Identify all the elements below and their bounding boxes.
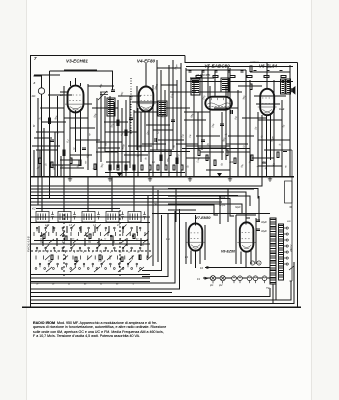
- wire: [152, 213, 270, 215]
- resistor R60: [250, 66, 252, 72]
- pilot lamp socket / antenna coupling: [38, 88, 44, 94]
- switch contact stub: [123, 232, 125, 260]
- wire: [256, 103, 280, 105]
- wire: [87, 177, 89, 212]
- resistor R9: [176, 158, 178, 164]
- resistor R: [111, 236, 113, 241]
- svg-text:16: 16: [258, 263, 260, 265]
- ground: [68, 177, 72, 182]
- switch arm: [104, 232, 112, 261]
- resistor R10: [198, 150, 200, 156]
- wire: [142, 143, 166, 145]
- resistor R: [121, 257, 123, 262]
- resistor R6: [125, 130, 127, 136]
- wire: [275, 284, 277, 299]
- capacitor C3: [129, 118, 133, 119]
- capacitor C9: [231, 110, 232, 114]
- resistor R25: [251, 155, 253, 161]
- wire: [64, 117, 88, 119]
- wire: [126, 238, 128, 246]
- svg-text:4,2: 4,2: [32, 207, 36, 211]
- wire: [148, 110, 150, 176]
- wire: [289, 65, 291, 176]
- wire: [206, 169, 230, 171]
- resistor R41: [213, 75, 218, 77]
- resistor R45: [281, 75, 286, 77]
- wire: [30, 201, 222, 203]
- svg-text:32μF: 32μF: [261, 220, 267, 224]
- resistor R5: [117, 120, 119, 126]
- wire: [164, 90, 166, 165]
- wire: [136, 226, 138, 233]
- wire: [42, 121, 66, 123]
- wire: [170, 91, 196, 93]
- switch contact stub: [78, 232, 80, 260]
- wire: [37, 98, 39, 205]
- resistor R42: [230, 75, 235, 77]
- capacitor C11: [256, 220, 260, 221]
- wire: [214, 107, 238, 109]
- wire: [69, 111, 71, 177]
- wire: [118, 95, 141, 97]
- wire: [63, 210, 65, 278]
- wire: [40, 107, 64, 109]
- wire: [258, 165, 282, 167]
- switch contact stub: [145, 232, 147, 260]
- switch contact stub: [49, 232, 51, 260]
- switch contact stub: [93, 232, 95, 260]
- trimmer capacitor: [97, 212, 100, 220]
- resistor R: [99, 255, 101, 260]
- wire: [104, 121, 128, 123]
- wire: [48, 94, 72, 96]
- resistor R16: [117, 165, 119, 170]
- switch contact stub: [108, 232, 110, 260]
- wire: [186, 66, 293, 68]
- tuning capacitor CV1: [98, 91, 108, 100]
- wire: [96, 141, 122, 143]
- wire: [273, 80, 275, 176]
- tube V7 EM80 internal electrodes: [186, 233, 205, 248]
- wire: [84, 238, 86, 246]
- wire: [157, 67, 181, 69]
- switch arm: [94, 267, 100, 272]
- tube V4 EF80 envelope: [139, 87, 154, 112]
- wire: [134, 111, 157, 113]
- coil L3: [82, 212, 95, 223]
- wire: [221, 112, 223, 160]
- switch contact stub: [34, 232, 36, 260]
- svg-text:32μF: 32μF: [261, 229, 267, 233]
- switch arm: [144, 232, 152, 261]
- loudspeaker LS1: [291, 88, 293, 92]
- wire: [266, 63, 268, 89]
- wire: [133, 110, 135, 176]
- tube V6 EL84 envelope: [260, 89, 274, 115]
- wire: [132, 101, 158, 103]
- switch contact stub: [56, 232, 58, 260]
- switch arm: [49, 239, 54, 243]
- wire: [34, 240, 148, 242]
- wire: [226, 143, 248, 145]
- resistor R20: [149, 165, 151, 170]
- wire: [31, 222, 150, 224]
- wire: [30, 209, 179, 289]
- heater of V5: [247, 276, 252, 281]
- capacitor C10: [283, 150, 287, 151]
- switch arm: [70, 267, 76, 272]
- wire: [63, 86, 65, 176]
- wire: [36, 149, 58, 151]
- svg-text:V7-EM80: V7-EM80: [196, 216, 211, 220]
- resistor R7: [160, 155, 162, 161]
- wire: [94, 226, 96, 233]
- switch contact stub: [130, 232, 132, 260]
- wire: [180, 63, 182, 176]
- wire: [219, 196, 221, 224]
- switch contact: [87, 268, 89, 270]
- wire: [121, 108, 123, 176]
- wire: [190, 77, 214, 79]
- svg-text:1: 1: [38, 252, 39, 254]
- wire: [236, 214, 256, 216]
- wire: [242, 117, 266, 119]
- svg-text:V8-EZ80: V8-EZ80: [221, 250, 235, 254]
- switch arm: [42, 232, 50, 261]
- wire: [30, 211, 174, 283]
- capacitor C6: [155, 138, 156, 142]
- switch contact: [53, 268, 55, 270]
- wire: [39, 150, 41, 158]
- wire: [142, 215, 162, 271]
- svg-text:FM-CAL-3,5-B: FM-CAL-3,5-B: [28, 236, 31, 252]
- resistor R2: [39, 158, 41, 164]
- capacitor C1: [50, 140, 54, 141]
- IF transformer T2: [158, 101, 167, 116]
- switch contact: [113, 268, 115, 270]
- coil L5: [128, 212, 141, 223]
- resistor R: [43, 234, 45, 239]
- wire: [226, 151, 250, 153]
- resistor R3b: [51, 162, 53, 168]
- resistor R61: [250, 84, 252, 90]
- IF transformer T4b: [286, 79, 291, 94]
- wire: [225, 86, 227, 160]
- wire: [186, 69, 246, 71]
- wire: [255, 218, 257, 264]
- wire: [70, 127, 95, 129]
- wire: [172, 60, 174, 150]
- wire: [147, 196, 149, 258]
- resistor R14: [234, 158, 236, 164]
- wire: [32, 145, 60, 147]
- svg-text:73f: 73f: [98, 260, 102, 263]
- svg-text:32μF: 32μF: [235, 206, 241, 209]
- switch contact: [105, 268, 107, 270]
- schematic frame right border: [296, 63, 298, 308]
- wire: [145, 63, 147, 87]
- wire: [237, 90, 239, 176]
- capacitor C20: [188, 71, 191, 72]
- wire: [36, 131, 64, 133]
- schematic frame bottom border middle: [30, 262, 294, 303]
- resistor R3d: [94, 164, 96, 170]
- wire: [41, 177, 43, 212]
- svg-text:mV/max: mV/max: [250, 61, 260, 64]
- wire: [142, 213, 168, 276]
- wire: [50, 71, 113, 90]
- svg-text:V3-ECH81: V3-ECH81: [66, 58, 88, 63]
- svg-text:32 μF: 32 μF: [219, 204, 226, 207]
- wire: [161, 84, 177, 86]
- wire: [80, 109, 82, 165]
- tube V6 EL84 internal electrodes: [258, 98, 277, 113]
- wire: [105, 151, 190, 153]
- resistor R44: [264, 75, 269, 77]
- switch contact: [70, 268, 72, 270]
- switch arm: [143, 239, 148, 243]
- ground: [148, 177, 152, 182]
- tube V8 EZ80 internal electrodes: [237, 233, 256, 249]
- wire: [186, 157, 210, 159]
- coil L4: [106, 212, 119, 223]
- capacitor C23: [227, 71, 230, 72]
- wire: [182, 148, 250, 150]
- trimmer capacitor: [51, 212, 54, 220]
- switch arm: [46, 267, 52, 272]
- resistor R15: [109, 165, 111, 170]
- resistor R17: [125, 165, 127, 170]
- switch contact stub: [86, 232, 88, 260]
- tube V5 EABC80 internal electrodes: [207, 98, 231, 107]
- switch contact: [131, 268, 133, 270]
- wire: [106, 161, 130, 163]
- wire: [270, 113, 272, 160]
- wire: [87, 84, 89, 170]
- wire: [185, 68, 187, 176]
- wire: [84, 103, 92, 105]
- wire: [140, 112, 142, 163]
- junction arrow: [117, 173, 122, 177]
- wire: [98, 238, 100, 246]
- arrow on pilot line F1: [205, 277, 210, 280]
- svg-text:ℓp2: ℓp2: [218, 284, 223, 287]
- switch arm: [73, 239, 78, 243]
- wire: [31, 277, 150, 279]
- tube V7 EM80 envelope: [189, 223, 203, 250]
- heavy HT supply bus: [30, 176, 294, 178]
- wire: [105, 172, 185, 174]
- wire: [198, 91, 242, 93]
- svg-text:3c: 3c: [68, 284, 70, 286]
- wire: [153, 129, 173, 131]
- svg-text:50 μF: 50 μF: [219, 196, 226, 199]
- switch contact: [110, 235, 112, 237]
- wire: [66, 226, 68, 233]
- resistor R3c: [79, 160, 81, 166]
- IF transformer T4a: [281, 79, 286, 94]
- resistor R13: [226, 150, 228, 156]
- socket pin 16: [257, 261, 261, 265]
- wire: [128, 145, 152, 147]
- wire: [240, 252, 242, 265]
- wire: [229, 68, 231, 176]
- wire: [245, 252, 247, 269]
- wire: [34, 137, 52, 139]
- wire: [41, 94, 43, 176]
- svg-text:a: a: [34, 81, 36, 85]
- wire: [112, 238, 114, 246]
- wire: [70, 154, 92, 156]
- switch contact stub: [115, 232, 117, 260]
- schematic frame top border (right section): [185, 56, 297, 63]
- wire: [57, 96, 59, 176]
- switch arm: [126, 232, 134, 261]
- resistor R8: [169, 150, 171, 156]
- resistor R3: [63, 150, 65, 156]
- resistor R43: [247, 75, 252, 77]
- switch contact: [86, 235, 88, 237]
- IF transformer T1: [107, 98, 115, 116]
- wire: [152, 85, 154, 176]
- switch arm: [97, 239, 102, 243]
- wire: [108, 226, 110, 233]
- wire: [76, 139, 100, 141]
- wire: [258, 119, 282, 121]
- tube V3 ECH81 envelope: [68, 86, 84, 113]
- wire: [197, 112, 199, 150]
- wire: [200, 151, 224, 153]
- wire: [31, 281, 150, 283]
- wire: [119, 210, 121, 278]
- wire: [52, 226, 54, 233]
- wire: [264, 149, 290, 151]
- wire: [186, 81, 293, 83]
- wire: [214, 70, 216, 97]
- switch contact stub: [64, 232, 66, 260]
- wire: [199, 249, 201, 264]
- wire: [150, 149, 172, 151]
- wire: [125, 100, 127, 176]
- wire: [238, 85, 262, 87]
- wire: [88, 85, 114, 87]
- coil L1: [36, 212, 49, 223]
- wire: [31, 250, 152, 252]
- wire: [30, 192, 250, 218]
- switch arm: [84, 232, 92, 261]
- wire: [249, 80, 251, 176]
- wire: [34, 76, 42, 88]
- wire: [124, 154, 148, 156]
- resistor R: [89, 234, 91, 239]
- wire: [153, 185, 167, 187]
- resistor R24: [181, 165, 183, 170]
- switch contact stub: [71, 232, 73, 260]
- switch arm: [138, 267, 144, 272]
- wire: [144, 112, 146, 153]
- wire: [209, 86, 211, 176]
- wire: [75, 111, 77, 153]
- resistor R: [65, 236, 67, 241]
- wire: [166, 107, 190, 109]
- capacitor C21: [201, 71, 204, 72]
- IF transformer T3: [191, 79, 200, 95]
- wire: [109, 96, 111, 176]
- wire: [190, 251, 192, 265]
- wire: [133, 177, 135, 212]
- wire: [113, 102, 115, 170]
- switch contact: [44, 268, 46, 270]
- svg-text:1,5K: 1,5K: [152, 203, 157, 206]
- heater of V3: [232, 276, 237, 281]
- resistor R18: [133, 165, 135, 170]
- svg-text:b: b: [33, 124, 35, 128]
- wire: [136, 86, 138, 150]
- wire: [198, 147, 226, 149]
- wire: [56, 238, 58, 246]
- wire: [75, 78, 77, 86]
- wire: [70, 81, 72, 86]
- wire: [39, 164, 41, 177]
- voltage selector taps: [284, 227, 289, 265]
- wire: [176, 143, 198, 145]
- pilot lamp LP1: [210, 276, 215, 281]
- coil L2: [58, 212, 71, 223]
- wire: [157, 190, 159, 262]
- wire: [258, 139, 290, 141]
- wire: [152, 186, 154, 266]
- wire: [30, 205, 218, 215]
- capacitor C24: [240, 71, 243, 72]
- switch contact stub: [138, 232, 140, 260]
- switch arm: [118, 267, 124, 272]
- wire: [137, 108, 139, 176]
- resistor R4: [70, 158, 72, 164]
- switch contact: [79, 268, 81, 270]
- heater of V4: [238, 276, 243, 281]
- svg-text:5c: 5c: [100, 284, 102, 286]
- wire: [168, 204, 242, 214]
- mains transformer T5 primary winding: [279, 224, 284, 280]
- wire: [168, 65, 170, 176]
- wire: [30, 188, 254, 190]
- arrow on heater line F2: [207, 266, 212, 269]
- resistor R19: [141, 165, 143, 170]
- ground: [108, 177, 112, 182]
- wire: [160, 70, 162, 176]
- wire: [228, 135, 254, 137]
- wire: [146, 124, 170, 126]
- wire: [205, 267, 270, 269]
- wire: [184, 111, 210, 113]
- wire: [266, 115, 268, 176]
- svg-text:ℓp1: ℓp1: [209, 284, 214, 287]
- switch wafer S1c contacts: [39, 261, 137, 268]
- schematic frame left border: [29, 56, 31, 308]
- capacitor C4: [111, 90, 115, 91]
- switch wafer S1a contacts: [36, 225, 141, 232]
- wire: [140, 238, 142, 246]
- wire: [281, 100, 283, 176]
- wire: [186, 145, 230, 147]
- svg-text:11: 11: [128, 252, 130, 254]
- wire: [92, 107, 118, 109]
- wire: [43, 128, 45, 176]
- wire: [80, 226, 82, 233]
- wire: [49, 71, 51, 199]
- capacitor C12: [256, 229, 260, 230]
- tube V5 EABC80 envelope: [205, 97, 232, 110]
